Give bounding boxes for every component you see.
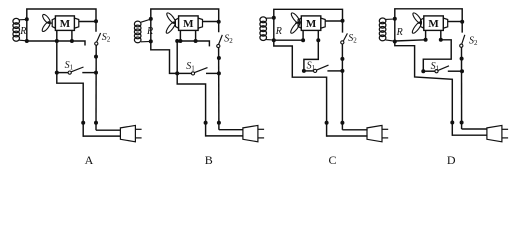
svg-text:M: M [306, 18, 317, 30]
svg-text:D: D [447, 153, 456, 167]
svg-text:A: A [85, 153, 94, 167]
svg-text:M: M [60, 18, 71, 30]
svg-text:M: M [428, 18, 439, 30]
svg-text:C: C [328, 153, 336, 167]
svg-text:R: R [275, 26, 282, 37]
svg-text:M: M [183, 18, 194, 30]
svg-text:R: R [146, 26, 153, 37]
svg-text:R: R [19, 26, 26, 37]
svg-text:B: B [205, 153, 213, 167]
svg-text:R: R [396, 27, 403, 38]
